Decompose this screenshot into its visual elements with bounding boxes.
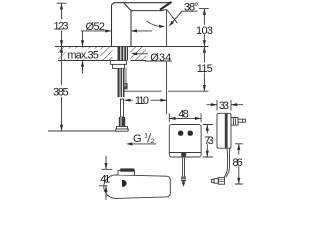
svg-text:48: 48 xyxy=(178,108,188,120)
svg-text:115: 115 xyxy=(197,63,213,75)
svg-text:73: 73 xyxy=(204,135,214,147)
svg-text:Ø34: Ø34 xyxy=(150,52,171,64)
svg-text:86: 86 xyxy=(232,157,242,169)
svg-text:123: 123 xyxy=(54,21,69,33)
svg-text:385: 385 xyxy=(53,87,69,99)
svg-text:1: 1 xyxy=(144,133,148,140)
svg-text:2: 2 xyxy=(151,138,155,145)
svg-text:110: 110 xyxy=(135,95,149,107)
svg-text:41: 41 xyxy=(100,173,110,185)
svg-text:G: G xyxy=(133,133,142,145)
svg-text:max.35: max.35 xyxy=(67,50,99,62)
svg-text:33: 33 xyxy=(219,100,229,112)
svg-text:103: 103 xyxy=(196,25,213,37)
svg-text:Ø52: Ø52 xyxy=(86,21,106,33)
svg-text:38°: 38° xyxy=(184,1,199,13)
